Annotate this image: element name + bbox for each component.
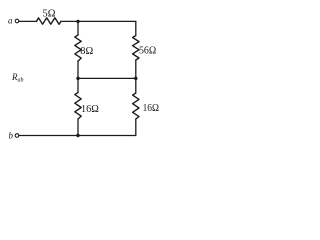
- svg-text:b: b: [9, 131, 14, 141]
- wire 8ohm to middle rail: [77, 61, 79, 78]
- wire middle junction down to 16ohm left: [77, 78, 79, 92]
- terminal a: [15, 19, 19, 23]
- wire top junction down to 8ohm: [77, 21, 79, 35]
- wire top-right corner down to 56ohm: [135, 21, 137, 35]
- wire middle rail: [78, 77, 136, 79]
- resistor R 56ohm: [133, 36, 139, 61]
- svg-text:16Ω: 16Ω: [81, 104, 99, 115]
- terminal b: [15, 134, 19, 138]
- wire middle-right junction down to 16ohm right: [135, 78, 137, 93]
- wire 16ohm right to bottom-right corner: [135, 119, 137, 136]
- wire a to resistor: [19, 20, 37, 22]
- resistor R 8ohm: [75, 35, 81, 61]
- wire 56ohm to middle rail: [135, 60, 137, 78]
- node middle-left junction: [76, 77, 79, 80]
- wire bottom rail: [19, 135, 136, 137]
- resistor R 16ohm right: [133, 93, 139, 119]
- svg-text:8Ω: 8Ω: [80, 46, 93, 57]
- wire resistor to top-right corner: [61, 20, 136, 22]
- wire 16ohm left to bottom rail: [77, 119, 79, 136]
- node bottom junction: [76, 134, 79, 137]
- node middle-right junction: [134, 77, 137, 80]
- resistor R 16ohm left: [75, 93, 81, 120]
- resistor R 5ohm: [37, 18, 62, 25]
- svg-text:5Ω: 5Ω: [43, 9, 56, 20]
- svg-text:a: a: [8, 15, 13, 25]
- svg-text:56Ω: 56Ω: [139, 46, 156, 57]
- svg-text:16Ω: 16Ω: [143, 103, 160, 114]
- svg-text:Rab: Rab: [11, 72, 24, 84]
- node top-middle junction: [76, 20, 79, 23]
